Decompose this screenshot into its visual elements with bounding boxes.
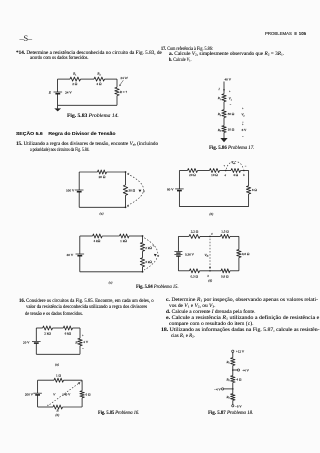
wire: Fig 5.83 top-middle segment: [81, 78, 95, 80]
wire: Fig 5.85b top-left: [38, 379, 54, 381]
resistor 6 ohm Fig 5.85b: [80, 391, 84, 398]
resistor 1,5 ohm Fig 5.84d: [221, 234, 231, 238]
wire: Fig 5.84d right lower: [238, 258, 240, 271]
svg-text:0,9 Ω: 0,9 Ω: [221, 274, 229, 279]
wire: Fig 5.85a bottom: [36, 353, 80, 355]
Vab dashed line Fig 5.84d: [209, 239, 211, 268]
wire: Fig 5.85b bottom right: [63, 406, 83, 408]
Vab arrowhead Fig 5.84a: [139, 190, 142, 193]
resistor R1 Fig 5.86: [222, 94, 226, 102]
battery 100 V Fig 5.84a: [75, 189, 84, 191]
resistor 10 ohm Fig 5.84b: [210, 169, 220, 173]
svg-text:20 Ω: 20 Ω: [99, 175, 106, 179]
svg-text:0,6 Ω: 0,6 Ω: [242, 252, 250, 257]
svg-text:+: +: [82, 333, 84, 337]
resistor 4 kohm Fig 5.84c: [93, 234, 103, 238]
resistor R unknown Fig 5.85a: [78, 338, 82, 346]
svg-text:3 kΩ: 3 kΩ: [145, 260, 152, 264]
resistor 6 ohm Fig 5.84b: [246, 186, 250, 194]
wire: Fig 5.84a bottom: [79, 206, 125, 208]
resistor 20 ohm Fig 5.84b: [188, 169, 198, 173]
svg-text:0,36 V: 0,36 V: [185, 252, 195, 257]
resistor 1 kohm Fig 5.84c: [120, 234, 130, 238]
svg-text:6 Ω: 6 Ω: [86, 392, 91, 396]
svg-text:4 Ω: 4 Ω: [96, 82, 102, 86]
svg-text:a: a: [225, 173, 227, 177]
resistor 3 kohm Fig 5.84c: [140, 258, 144, 267]
battery E 24 V Fig 5.83: [54, 91, 63, 93]
battery 40 V Fig 5.84c: [76, 253, 85, 255]
svg-text:a: a: [143, 190, 145, 193]
wire: Fig 5.85a left upper: [35, 328, 37, 341]
resistor 2 kohm Fig 5.85a: [43, 326, 53, 330]
svg-text:4 V: 4 V: [83, 340, 88, 344]
svg-text:+: +: [242, 108, 244, 111]
resistor 6 kohm Fig 5.85a: [63, 326, 72, 330]
resistor R2 Fig 5.86: [222, 110, 226, 118]
terminal -8 V Fig 5.87: [232, 405, 234, 407]
svg-text:20 V: 20 V: [23, 340, 30, 344]
wire: Fig 5.86 top: [223, 82, 225, 94]
wire: Fig 5.84a right upper: [125, 172, 127, 185]
node b Fig 5.84d: [209, 270, 211, 272]
svg-text:a: a: [158, 254, 160, 257]
battery 20 V Fig 5.85a: [32, 340, 41, 342]
svg-text:1 Ω: 1 Ω: [56, 374, 61, 378]
svg-text:+: +: [242, 124, 244, 127]
wire: Fig 5.87 seg1: [232, 352, 234, 357]
svg-text:4 Ω: 4 Ω: [233, 173, 238, 177]
svg-text:100 V: 100 V: [66, 189, 75, 193]
wire: Fig 5.85a left lower: [35, 343, 37, 354]
svg-text:6 V: 6 V: [242, 128, 247, 132]
Vab dashed arc Fig 5.84b: [226, 161, 243, 169]
svg-text:E: E: [48, 91, 52, 95]
svg-text:R2: R2: [225, 378, 229, 383]
wire: Fig 5.84a top-right: [107, 171, 126, 173]
wire: Fig 5.84b top segment 3: [220, 170, 232, 172]
svg-text:a: a: [211, 233, 213, 236]
resistor 0,3 ohm Fig 5.84d: [190, 269, 200, 273]
resistor 0,9 ohm Fig 5.84d: [221, 269, 230, 273]
resistor R3 Fig 5.86: [222, 126, 226, 133]
wire: Fig 5.84c bottom: [80, 271, 143, 273]
wire: Fig 5.83 left lower: [57, 94, 59, 106]
resistor R2 Fig 5.87: [231, 376, 235, 383]
svg-text:R2: R2: [217, 112, 221, 117]
svg-text:b: b: [127, 204, 129, 208]
svg-text:Vab: Vab: [231, 160, 236, 165]
wire: Fig 5.84a right lower: [125, 195, 127, 207]
wire: Fig 5.87 seg3: [232, 383, 234, 394]
svg-text:2 kΩ: 2 kΩ: [44, 332, 51, 336]
svg-text:(a): (a): [55, 362, 60, 366]
node -4V junction: [232, 388, 234, 390]
Vab dashed arc Fig 5.84c: [144, 238, 158, 270]
svg-text:V: V: [53, 393, 56, 397]
svg-text:I: I: [217, 87, 220, 91]
terminal +4 V: [237, 369, 239, 371]
node b Fig 5.84b: [243, 170, 245, 172]
wire: ground stub Fig 5.83: [57, 105, 59, 108]
wire: Fig 5.85b left upper: [37, 380, 39, 393]
wire: Fig 5.84c left lower: [79, 256, 81, 272]
wire: Fig 5.84c top-middle: [102, 235, 119, 237]
battery 0,36 V multi-cell Fig 5.84d: [174, 251, 182, 253]
wire: Fig 5.87 seg2: [232, 366, 234, 376]
wire: Fig 5.87 seg4: [232, 400, 234, 404]
svg-text:−4 V: −4 V: [214, 387, 221, 391]
svg-text:V2: V2: [241, 113, 244, 118]
wire: Fig 5.86 mid1: [223, 102, 225, 110]
svg-text:10 Ω: 10 Ω: [228, 128, 235, 132]
terminal -4 V: [222, 388, 224, 390]
wire: Fig 5.86 mid2: [223, 118, 225, 126]
resistor 0,6 ohm Fig 5.84d: [237, 250, 241, 258]
svg-text:R1: R1: [225, 360, 229, 365]
wire: Fig 5.83 right lower: [116, 96, 118, 106]
wire: Fig 5.84d top-left: [178, 235, 189, 237]
svg-text:24 W: 24 W: [120, 76, 128, 80]
svg-text:6 Ω: 6 Ω: [252, 188, 257, 192]
svg-text:R: R: [56, 408, 60, 412]
resistor R3 Fig 5.87: [231, 394, 235, 401]
svg-text:b: b: [207, 275, 209, 278]
resistor R2 4 ohm Fig 5.83: [94, 77, 105, 81]
terminal +12 V Fig 5.87: [232, 350, 234, 352]
wire: Fig 5.83 left upper: [57, 79, 59, 92]
wire: Fig 5.85b bottom left: [38, 406, 53, 408]
page ornament -S-: [20, 33, 32, 43]
resistor 2 kohm Fig 5.84c: [140, 243, 144, 252]
svg-text:1 kΩ: 1 kΩ: [120, 239, 127, 243]
wire: Fig 5.85b left lower: [37, 395, 39, 407]
svg-text:80 V: 80 V: [167, 188, 174, 192]
node +4V junction: [232, 369, 234, 371]
svg-text:4 Ω: 4 Ω: [236, 378, 241, 382]
node a Fig 5.84b: [225, 170, 227, 172]
svg-text:b: b: [243, 173, 245, 177]
svg-text:40 V: 40 V: [224, 77, 231, 81]
svg-text:(a): (a): [100, 212, 105, 216]
wire: -4V branch: [224, 388, 233, 390]
battery 200 V Fig 5.85b: [33, 392, 42, 394]
svg-text:10 Ω: 10 Ω: [211, 173, 218, 177]
node b Fig 5.84a: [125, 206, 127, 208]
wire: Fig 5.84b left upper: [178, 171, 180, 189]
wire: Fig 5.84b top-left: [179, 170, 187, 172]
svg-text:R2: R2: [96, 72, 101, 77]
wire: Fig 5.85a top-right: [73, 327, 81, 329]
svg-text:2,2 Ω: 2,2 Ω: [191, 230, 199, 235]
svg-text:0,3 Ω: 0,3 Ω: [191, 274, 199, 279]
svg-text:−: −: [230, 103, 232, 106]
resistor R1 2 ohm Fig 5.83: [70, 77, 81, 81]
svg-text:1,5 Ω: 1,5 Ω: [221, 230, 229, 235]
svg-text:(b): (b): [209, 212, 214, 216]
wire: Fig 5.84c right middle: [142, 251, 144, 258]
svg-text:R1: R1: [72, 72, 77, 77]
node a Fig 5.84a: [125, 171, 127, 173]
svg-text:30 Ω: 30 Ω: [128, 188, 135, 192]
wire: Fig 5.84c top-left: [80, 235, 93, 237]
wire: Fig 5.84b top segment 2: [198, 170, 210, 172]
svg-text:(d): (d): [208, 279, 213, 283]
wire: Fig 5.84c top-right: [129, 235, 143, 237]
svg-text:200 V: 200 V: [25, 392, 34, 396]
svg-text:2 kΩ: 2 kΩ: [145, 246, 152, 250]
wire: Fig 5.84d right upper: [238, 236, 240, 249]
wire: Fig 5.84d bottom middle: [200, 270, 222, 272]
svg-text:−: −: [82, 347, 84, 351]
svg-text:−: −: [242, 135, 244, 138]
svg-text:a: a: [128, 172, 130, 176]
resistor 4 ohm Fig 5.84b: [231, 169, 241, 173]
wire: Fig 5.83 right upper: [116, 79, 118, 87]
Vab arrowhead Fig 5.84c: [154, 254, 157, 257]
svg-text:6 kΩ: 6 kΩ: [65, 332, 72, 336]
svg-text:+: +: [229, 91, 231, 94]
Vab arrowhead Fig 5.84d: [209, 267, 211, 269]
wire: Fig 5.85b top-right: [64, 379, 83, 381]
svg-text:+12 V: +12 V: [236, 350, 245, 354]
wire: Fig 5.84d top-middle: [200, 235, 221, 237]
wire: Fig 5.83 top-right segment: [105, 78, 118, 80]
wire: Fig 5.84b right upper: [248, 171, 250, 186]
wire: Fig 5.84b right lower: [248, 194, 250, 207]
wire: Fig 5.84d left upper: [177, 236, 179, 251]
svg-text:R3: R3: [217, 128, 222, 133]
wire: Fig 5.84d top-right: [230, 235, 239, 237]
wire: Fig 5.84a left upper: [78, 172, 80, 190]
wire: Fig 5.85a top-left: [36, 327, 42, 329]
svg-text:30 Ω: 30 Ω: [228, 112, 235, 116]
wire: Fig 5.84b left lower: [178, 191, 180, 207]
wire: Fig 5.84d bottom left: [178, 270, 189, 272]
wire: Fig 5.84a top-left: [79, 171, 97, 173]
svg-text:+: +: [224, 165, 226, 168]
wire: Fig 5.83 bottom: [58, 104, 118, 106]
svg-text:R = ?: R = ?: [119, 90, 128, 94]
arrow from 24 W to resistor: [120, 80, 124, 85]
wire: Fig 5.84c right upper: [142, 236, 144, 243]
svg-text:+: +: [152, 245, 154, 248]
svg-text:4 kΩ: 4 kΩ: [93, 239, 100, 243]
V dashed diagonal Fig 5.85b: [50, 383, 80, 405]
wire: Fig 5.84b top-right: [241, 170, 249, 172]
wire: Fig 5.85a right lower: [79, 346, 81, 355]
wire: Fig 5.84c right lower: [142, 267, 144, 272]
wire: Fig 5.84d left lower: [177, 256, 179, 271]
wire: Fig 5.84c left upper: [79, 236, 81, 254]
ground Fig 5.83: [54, 108, 61, 111]
svg-text:24 V: 24 V: [65, 91, 72, 95]
wire: Fig 5.84a left lower: [78, 192, 80, 208]
wire: Fig 5.86 bottom: [223, 133, 225, 139]
svg-text:2 Ω: 2 Ω: [72, 82, 78, 86]
resistor R1 Fig 5.87: [231, 358, 235, 366]
svg-text:(b): (b): [55, 413, 60, 417]
wire: Fig 5.83 top-left segment: [58, 78, 71, 80]
battery 80 V Fig 5.84b: [175, 188, 184, 190]
node a Fig 5.84d: [209, 236, 211, 238]
svg-text:R3: R3: [225, 395, 230, 400]
wire: Fig 5.84b bottom: [179, 206, 248, 208]
node b Fig 5.84c: [142, 271, 144, 273]
wire: +4V branch: [233, 369, 238, 371]
wire: Fig 5.84d bottom right: [230, 270, 239, 272]
resistor 2,2 ohm Fig 5.84d: [189, 234, 200, 238]
resistor 20 ohm Fig 5.84a: [98, 170, 107, 174]
ground arrow Fig 5.86: [220, 138, 227, 142]
resistor 30 ohm Fig 5.84a: [123, 185, 127, 195]
svg-text:V1: V1: [229, 97, 232, 102]
wire: Fig 5.85b right lower: [81, 398, 83, 407]
resistor 1 ohm Fig 5.85b: [54, 378, 64, 382]
node a Fig 5.84c: [142, 235, 144, 237]
resistor R unknown Fig 5.83: [115, 87, 119, 95]
svg-text:Vab: Vab: [204, 253, 209, 258]
svg-text:20 Ω: 20 Ω: [189, 173, 196, 177]
Vab dashed arc Fig 5.84a: [127, 174, 143, 206]
svg-text:−8 V: −8 V: [235, 404, 242, 408]
svg-text:+4 V: +4 V: [242, 368, 249, 372]
wire: Fig 5.85b right upper: [81, 380, 83, 391]
svg-text:140 V: 140 V: [62, 393, 71, 397]
resistor R unknown Fig 5.85b: [53, 405, 63, 409]
svg-text:(c): (c): [109, 280, 114, 284]
svg-text:40 V: 40 V: [67, 253, 74, 257]
diagonal arrowhead top-right: [78, 382, 80, 385]
svg-text:−: −: [245, 165, 247, 168]
svg-text:R1: R1: [217, 96, 221, 101]
wire: Fig 5.85a top-middle: [53, 327, 64, 329]
wire: Fig 5.85a right upper: [79, 328, 81, 338]
